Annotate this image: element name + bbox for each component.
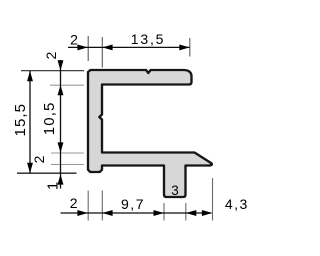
extension line x=164 leg left xyxy=(163,203,165,221)
arrow left at x=185.5 (dim 4,3 left) xyxy=(186,210,196,216)
svg-text:13,5: 13,5 xyxy=(131,31,165,47)
svg-text:2: 2 xyxy=(70,195,78,211)
top dimension line y=47.4 xyxy=(68,46,190,48)
left dimension line x=60.5 (2 / 10,5 / 1 chain) xyxy=(60,60,62,189)
extension line flange underside (y=85) xyxy=(50,84,84,86)
extension line web bottom (y=173) xyxy=(17,172,77,174)
svg-text:2: 2 xyxy=(43,51,59,59)
extension line x=190 top right xyxy=(189,38,191,57)
arrow right at x=88 (dim 2 bottom) xyxy=(77,210,87,216)
profile cross-section body xyxy=(88,70,212,197)
extension line x=102 bottom xyxy=(101,191,103,221)
svg-text:3: 3 xyxy=(171,183,179,198)
svg-text:10,5: 10,5 xyxy=(41,102,58,136)
left dimension line x=30 (15,5) xyxy=(29,71,31,174)
extension line bottom flange bottom (y=164.5) xyxy=(51,164,84,166)
bottom dimension line y=213 xyxy=(61,212,212,214)
arrow up at y=70 (dim 15,5 top) xyxy=(27,71,33,81)
extension line x=88 bottom xyxy=(87,191,89,221)
extension line x=102 top xyxy=(101,37,103,68)
svg-text:1: 1 xyxy=(44,181,61,190)
arrow left at x=102 (dim 13,5 left) xyxy=(102,44,112,50)
arrow up at y=85 (dim 10,5 top) xyxy=(58,85,64,95)
svg-text:2: 2 xyxy=(70,31,78,47)
svg-text:15,5: 15,5 xyxy=(12,103,29,137)
svg-text:9,7: 9,7 xyxy=(121,196,145,212)
svg-text:2: 2 xyxy=(31,155,47,163)
arrow right at x=88 (dim 2 top) xyxy=(77,44,87,50)
extension line bottom flange top (y=153) xyxy=(51,152,84,154)
arrow right at x=189.5 (dim 13,5 right) xyxy=(179,44,189,50)
extension line x=185.5 leg right xyxy=(185,203,187,221)
arrow left at x=102 (dim 9,7 left) xyxy=(102,210,112,216)
arrow up at y=173.5 (dim 1 bottom) xyxy=(58,174,64,184)
extension line x=212.5 flange tip xyxy=(212,178,214,221)
svg-text:4,3: 4,3 xyxy=(225,196,249,212)
arrow right at x=164 (dim 9,7 right) xyxy=(154,210,164,216)
arrow right at x=211.5 (dim 4,3 right) xyxy=(202,210,212,216)
arrow down at y=152.5 (dim 10,5 bottom) xyxy=(58,142,64,152)
arrow down at y=70 (dim 2 top-left) xyxy=(58,60,64,70)
extension line x=88 top xyxy=(87,36,89,61)
arrow down at y=173 (dim 15,5 bottom) xyxy=(27,163,33,173)
extension line top edge (y=70) xyxy=(21,70,84,72)
